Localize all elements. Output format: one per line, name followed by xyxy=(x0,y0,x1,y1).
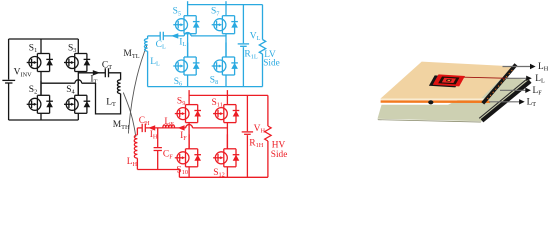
coupling arc M_TL (LT to LL) xyxy=(128,45,147,134)
inner winding (red) xyxy=(442,78,456,83)
bottom PCB plate (LT layer) xyxy=(378,77,530,121)
wire: tank output tap xyxy=(78,72,105,74)
wire: HV tank bottom return xyxy=(137,170,179,178)
battery VINV xyxy=(2,79,15,81)
wire: S1-S2 midpoint xyxy=(40,72,42,96)
current arrow IF xyxy=(178,125,185,130)
wire: inverter top rail xyxy=(9,38,79,40)
current arrow IT xyxy=(93,70,100,75)
wire: midpoint cross with hop xyxy=(41,82,96,84)
capacitor CL xyxy=(160,32,163,40)
capacitor CF xyxy=(154,148,162,151)
battery VH xyxy=(242,131,253,133)
wire hop over S5-S6 leg xyxy=(184,33,191,36)
pointer line LF xyxy=(500,89,526,91)
wire: S7-S8 midpoint xyxy=(225,34,227,57)
top PCB plate surface xyxy=(381,62,514,99)
current arrow IH xyxy=(148,125,155,130)
transistor S7 xyxy=(212,1,238,34)
transistor S8 xyxy=(212,43,238,76)
wire: VH branch xyxy=(246,95,248,177)
capacitor CH xyxy=(142,124,145,132)
winding gap (dark) xyxy=(438,76,459,84)
pointer line LT xyxy=(489,101,520,103)
resistor R1H xyxy=(265,126,271,141)
wire hop over S9-S10 leg xyxy=(186,125,193,128)
wire: S9-S10 midpoint xyxy=(188,123,190,149)
outer winding (red) xyxy=(433,74,465,86)
pointer line LH xyxy=(503,66,531,68)
capacitor CF branch xyxy=(157,128,159,170)
wire: S4 source stub xyxy=(77,113,79,120)
wire: LH top to CH xyxy=(137,127,142,129)
wire: HV bottom rail xyxy=(179,176,268,178)
bottom plate right edge (black) xyxy=(482,81,530,121)
inductor LH xyxy=(136,128,138,170)
transistor S3 xyxy=(64,39,90,72)
inductor LF xyxy=(163,125,175,128)
wire: inverter bottom rail xyxy=(9,119,79,121)
top PCB plate side sliver xyxy=(381,98,489,100)
copper dashes on edge band xyxy=(487,70,513,100)
wire: HV top rail xyxy=(189,94,268,96)
wire: S12 source stub xyxy=(226,167,228,178)
via dot xyxy=(428,100,433,104)
wire: CT to LT xyxy=(109,73,121,80)
winding lead trace xyxy=(464,77,509,78)
wire: LV top rail xyxy=(188,4,263,6)
wire: S5-S6 midpoint xyxy=(187,34,189,57)
inductor LL xyxy=(147,36,149,87)
resistor R1L xyxy=(259,40,265,55)
wire: LV bottom rail xyxy=(148,86,263,88)
transistor S11 xyxy=(213,90,239,123)
wire: S10 source stub xyxy=(188,167,190,178)
resistor R1H branch xyxy=(267,95,269,177)
wire: LL to CL xyxy=(148,35,161,37)
bottom plate top copper edge line xyxy=(479,79,527,119)
transistor S12 xyxy=(213,134,239,167)
wire: LT return loop xyxy=(96,83,121,114)
coupling arc M_TH (LT to LH) xyxy=(123,93,136,138)
transistor S9 xyxy=(175,90,201,123)
transistor S1 xyxy=(27,39,53,72)
bottom plate front edge shadow xyxy=(378,119,482,122)
wire: S3-S4 midpoint xyxy=(77,72,79,96)
wire: VL branch xyxy=(242,5,244,87)
resistor R1L branch xyxy=(262,5,264,87)
pointer line LL xyxy=(505,77,527,79)
transistor S6 xyxy=(173,43,199,76)
wire: S6 source stub xyxy=(187,75,189,87)
svg-text:Side: Side xyxy=(263,59,280,69)
capacitor CT xyxy=(105,68,108,77)
battery VL xyxy=(238,43,249,45)
winding centre hole xyxy=(446,79,452,81)
wire: S2 source stub xyxy=(40,113,42,120)
svg-text:Side: Side xyxy=(271,150,288,160)
wire: S11-S12 midpoint xyxy=(226,123,228,149)
wire: CH to bridge with hop xyxy=(145,127,227,129)
top plate right edge (black band) xyxy=(483,65,516,104)
winding shadow xyxy=(429,75,461,87)
wire: inverter left rail xyxy=(8,39,10,120)
wire hop over S3-S4 leg xyxy=(75,80,82,83)
winding centre pad xyxy=(447,80,450,81)
top PCB plate copper stripe xyxy=(381,100,491,103)
transistor S4 xyxy=(64,81,90,114)
transistor S2 xyxy=(27,81,53,114)
inductor LT xyxy=(117,80,120,94)
current arrow IL xyxy=(171,33,178,38)
wire: CL to bridge with hop xyxy=(163,35,226,37)
transistor S10 xyxy=(175,134,201,167)
svg-text:HV: HV xyxy=(272,140,286,150)
wire: S8 source stub xyxy=(225,75,227,87)
transistor S5 xyxy=(173,1,199,34)
